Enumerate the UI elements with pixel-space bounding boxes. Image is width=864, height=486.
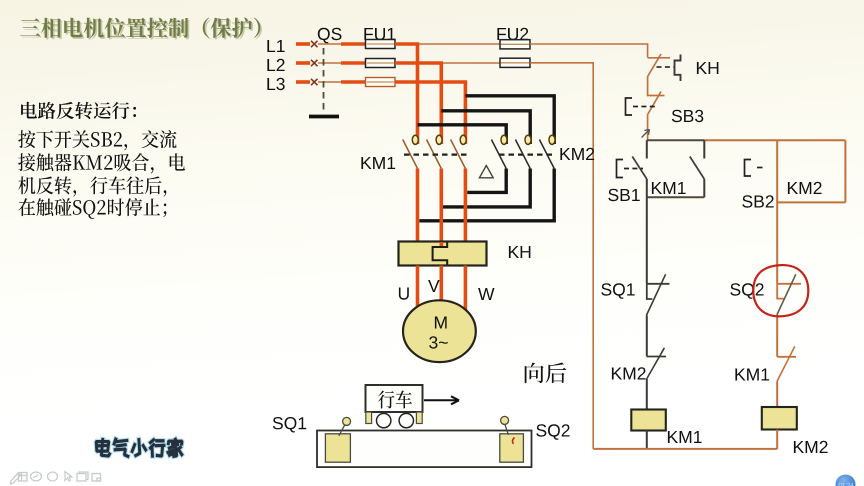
contactor KM1 NC label <box>735 369 769 381</box>
bumper SQ2 block <box>500 434 524 462</box>
KM1 linkage dashed <box>404 154 470 156</box>
title text <box>20 18 262 40</box>
wire L2 into FU1 <box>341 61 366 65</box>
paragraph line p4 <box>18 198 166 219</box>
wire KM2 lower inner loop <box>467 169 506 193</box>
button SB3 actuator <box>626 98 659 115</box>
node L2 label <box>267 59 284 71</box>
node L3 label <box>267 78 284 90</box>
wire L2 drop <box>439 63 443 144</box>
wire L2 to QS <box>296 61 310 65</box>
progress bubble <box>836 475 856 486</box>
fuse FU2 upper <box>500 40 530 49</box>
trolley wheel right <box>399 413 413 427</box>
QS contact mark L3 <box>311 79 318 85</box>
contactor KM1 NC interlock <box>777 346 796 407</box>
contactor KM1 aux label <box>652 182 686 194</box>
contactor KM1 main contact 3 <box>451 135 467 168</box>
coil KM2 <box>762 407 797 449</box>
direction arrow <box>424 396 459 404</box>
thermal overload KH heater box <box>399 242 487 266</box>
wire KM2 lower outer loop <box>419 169 554 221</box>
wire L3 to QS <box>296 80 310 84</box>
paragraph line p1 <box>18 130 176 150</box>
wire KM2 branch L1 inner loop <box>418 125 507 144</box>
terminal W label <box>478 288 494 300</box>
button SB3 label <box>672 110 704 122</box>
wire to KH heater x441.3 <box>439 169 443 242</box>
wire control top rail left <box>647 139 705 141</box>
red tick annotation <box>512 438 514 445</box>
contactor KM2 main contact 2 <box>515 135 531 168</box>
wire SB1 KM1 junction bar <box>647 196 705 198</box>
toolbar icons <box>11 472 101 485</box>
contactor KM1 aux NO contact <box>690 140 705 197</box>
watermark 电气小行家 <box>95 438 183 458</box>
contactor KM2 aux label <box>788 182 822 194</box>
limit switch SQ1 label <box>601 283 634 299</box>
motor M label <box>435 317 447 329</box>
KM2 linkage dashed <box>499 154 556 156</box>
trolley body 行车 box <box>366 385 423 412</box>
QS linkage dashed <box>323 48 325 112</box>
wire L1 FU1 to drop <box>395 42 419 46</box>
QS base bar <box>309 115 339 119</box>
delta symbol <box>479 166 493 178</box>
button SB1 NO contact <box>632 140 647 197</box>
wire KM2 branch L2 middle loop <box>441 111 530 144</box>
fuse FU1 L1 <box>366 40 396 49</box>
motor M circle <box>403 300 476 362</box>
fuse element lines <box>367 44 529 82</box>
heading text <box>21 102 136 119</box>
paragraph line p2 <box>18 153 185 173</box>
QS contact mark L1 <box>311 41 318 47</box>
wire L1 QS to FU1 <box>318 43 341 45</box>
bumper SQ1 block <box>325 434 350 462</box>
fuse FU1 L3 <box>366 78 396 87</box>
contactor KM1 main label <box>361 157 395 169</box>
annotation 向后 <box>525 363 567 384</box>
fuse FU1 L2 <box>366 59 396 68</box>
terminal V label <box>428 280 440 292</box>
limit switch SQ2 bottom label <box>536 424 569 440</box>
wire L1 drop <box>416 44 420 144</box>
limit switch SQ2 NC contact <box>777 274 801 357</box>
wire L2 to FU2 <box>443 62 500 64</box>
wire FU2 to KH contact <box>530 44 648 58</box>
switch QS label <box>318 28 342 44</box>
limit switch SQ2 label <box>730 283 763 299</box>
button SB1 actuator <box>617 160 644 178</box>
paragraph line p3 <box>18 176 166 196</box>
wire L3 FU1 to drop <box>395 80 467 84</box>
contactor KM1 main contact 1 <box>403 135 419 168</box>
contactor KM2 main label <box>560 148 594 160</box>
roller SQ1 <box>339 417 351 435</box>
coil KM2 label <box>794 441 828 453</box>
contactor KM1 main contact 2 <box>427 135 443 168</box>
wire V to motor <box>439 266 443 302</box>
motor 3~ label <box>429 336 448 348</box>
wire control bottom rail <box>593 448 777 450</box>
cursor arrow <box>642 130 650 138</box>
fuse FU2 lower <box>500 58 530 67</box>
thermal overload KH label <box>509 246 531 258</box>
button SB2 label <box>742 195 773 207</box>
wire KM2 branch L3 top loop <box>465 96 554 144</box>
wire to KH heater x417.5 <box>416 169 420 242</box>
node L1 label <box>267 40 284 52</box>
button SB3 NC contact <box>648 92 661 141</box>
QS contact mark L2 <box>311 60 318 66</box>
contactor KM2 main contact 1 <box>491 135 507 168</box>
limit switch SQ1 NC contact <box>646 274 669 356</box>
terminal U label <box>399 288 409 300</box>
relay KH control label <box>697 62 719 74</box>
fuse FU2 label <box>497 28 528 40</box>
wire L1 into FU1 <box>341 42 366 46</box>
track bed <box>317 431 532 468</box>
limit switch SQ1 bottom label <box>273 417 306 433</box>
contactor KM2 aux closed contact <box>777 140 845 202</box>
wire W to motor <box>464 266 468 312</box>
relay KH NC contact <box>648 54 670 96</box>
button SB1 label <box>608 189 639 201</box>
roller SQ2 <box>501 416 509 434</box>
wire U to motor <box>416 266 420 308</box>
relay KH thermal element <box>657 55 681 82</box>
wire L3 drop <box>464 82 468 144</box>
wire L1 to FU2 <box>419 43 500 45</box>
wire KM2 lower middle loop <box>443 169 530 207</box>
wire L3 into FU1 <box>341 80 366 84</box>
coil KM1 label <box>668 431 702 443</box>
red annotation circle <box>753 265 808 316</box>
contactor KM2 NC interlock <box>647 348 666 410</box>
wire control top rail right <box>704 139 845 141</box>
fuse FU1 label <box>364 28 395 40</box>
wire FU2 to left return rail <box>530 63 593 449</box>
wire L1 to QS <box>296 42 310 46</box>
contactor KM2 main contact 3 <box>539 135 555 168</box>
wire to KH heater x465.4 <box>464 169 468 242</box>
wire SB1 branch down <box>646 197 648 283</box>
button SB2 closed contact wire <box>776 140 778 283</box>
trolley wheel left <box>377 413 391 427</box>
trolley left leg <box>366 412 372 424</box>
trolley 行车 text <box>378 391 412 409</box>
contactor KM2 NC label <box>612 367 646 379</box>
wire L3 QS to FU1 <box>318 81 341 83</box>
button SB2 actuator <box>745 160 763 177</box>
wire L2 QS to FU1 <box>318 62 341 64</box>
wire L2 FU1 to drop <box>395 61 443 65</box>
coil KM1 <box>631 410 666 449</box>
trolley right leg <box>416 412 422 424</box>
